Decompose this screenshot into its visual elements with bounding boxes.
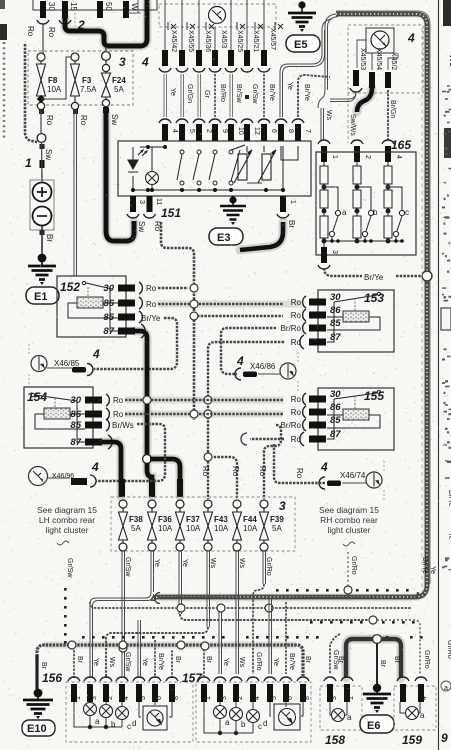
svg-text:Ro: Ro bbox=[295, 468, 304, 479]
svg-text:a: a bbox=[95, 717, 100, 726]
157 pins 1,3,2,4,5,6,8 bbox=[198, 677, 311, 702]
svg-text:159: 159 bbox=[402, 733, 422, 747]
151 bottom pin 1 bbox=[277, 196, 296, 228]
svg-text:X46/85: X46/85 bbox=[54, 359, 80, 368]
svg-text:165: 165 bbox=[391, 138, 411, 152]
svg-text:Ro: Ro bbox=[291, 298, 302, 307]
box fragment at top bbox=[128, 0, 141, 13]
151 internals: rheostats bbox=[234, 150, 276, 183]
svg-text:E6: E6 bbox=[367, 720, 380, 732]
svg-text:Br: Br bbox=[337, 656, 344, 664]
connector X45/42 pin 4 bbox=[159, 0, 178, 141]
svg-text:85: 85 bbox=[103, 312, 114, 323]
svg-text:4: 4 bbox=[91, 460, 99, 474]
svg-text:10A: 10A bbox=[158, 524, 173, 533]
svg-text:Gr/Gn: Gr/Gn bbox=[186, 84, 193, 103]
svg-text:154: 154 bbox=[27, 390, 47, 404]
svg-text:Ro: Ro bbox=[258, 466, 267, 477]
svg-text:4: 4 bbox=[395, 155, 402, 159]
svg-text:1: 1 bbox=[348, 696, 355, 700]
battery 1 bbox=[25, 156, 54, 230]
svg-text:c: c bbox=[127, 722, 131, 731]
svg-text:4: 4 bbox=[236, 354, 244, 368]
scan blur halos bbox=[65, 0, 401, 678]
svg-text:Ro: Ro bbox=[291, 435, 302, 444]
svg-text:X45/42: X45/42 bbox=[170, 30, 177, 52]
earth spur E10 bbox=[35, 655, 38, 689]
main feed wire around right side bbox=[153, 14, 427, 601]
svg-text:F36: F36 bbox=[158, 515, 172, 524]
svg-text:Gr: Gr bbox=[203, 90, 210, 98]
Br bus over 158/159 with E6 bbox=[346, 639, 401, 678]
svg-text:X45/3: X45/3 bbox=[220, 30, 227, 48]
svg-text:5A: 5A bbox=[114, 85, 124, 94]
svg-text:Br: Br bbox=[304, 656, 311, 664]
151 internals: bus and dots bbox=[131, 145, 298, 192]
svg-text:Ye: Ye bbox=[272, 658, 279, 666]
svg-text:Ro: Ro bbox=[47, 27, 56, 38]
connector X45/2 bbox=[382, 52, 397, 162]
fuse box 3 bbox=[28, 51, 149, 105]
svg-text:5A: 5A bbox=[272, 524, 282, 533]
dotted continuation rows bbox=[64, 588, 67, 644]
svg-text:Br/Ye: Br/Ye bbox=[141, 314, 161, 323]
svg-text:Sw: Sw bbox=[110, 114, 119, 125]
main earth bus to 157 pin 1 bbox=[37, 641, 303, 676]
151 internals: LED bbox=[128, 150, 147, 172]
159 pin 4 drop Gr/Ro bbox=[377, 620, 430, 674]
wire row 153/86 from node column bbox=[190, 312, 283, 320]
svg-text:10A: 10A bbox=[243, 524, 258, 533]
wire row 154/30 to 155/30 bbox=[125, 399, 283, 401]
wire Br/Ye from 165 to feed node bbox=[324, 268, 421, 282]
svg-text:4: 4 bbox=[421, 696, 428, 700]
svg-text:3: 3 bbox=[279, 499, 286, 513]
svg-text:10A: 10A bbox=[47, 85, 62, 94]
svg-text:152: 152 bbox=[60, 280, 80, 294]
svg-text:1: 1 bbox=[289, 200, 296, 204]
svg-text:E5: E5 bbox=[294, 39, 307, 51]
wires and components get added below bbox=[0, 0, 157, 304]
svg-text:4: 4 bbox=[254, 696, 261, 700]
svg-text:158: 158 bbox=[325, 733, 345, 747]
svg-text:Gr/Ro: Gr/Ro bbox=[265, 557, 272, 576]
svg-text:LH combo rear: LH combo rear bbox=[39, 515, 95, 525]
svg-text:Br: Br bbox=[379, 660, 386, 668]
165 column 1 bbox=[320, 162, 341, 248]
svg-text:F3: F3 bbox=[82, 76, 92, 85]
connector X45/21 pin 12 bbox=[241, 0, 260, 141]
svg-text:12: 12 bbox=[253, 127, 260, 135]
svg-text:8: 8 bbox=[287, 129, 294, 133]
svg-text:F39: F39 bbox=[270, 515, 284, 524]
158 pin 3 drop Gr/Sw bbox=[330, 634, 340, 674]
connector X45/55 pin 5 bbox=[176, 0, 195, 141]
svg-text:b: b bbox=[373, 208, 378, 217]
svg-text:X45/21: X45/21 bbox=[252, 30, 259, 52]
connector X45/57 pin 6 bbox=[258, 0, 277, 141]
svg-text:Ws: Ws bbox=[108, 657, 115, 668]
instrument cluster dashed box with lamp bbox=[159, 4, 276, 27]
svg-text:Ye: Ye bbox=[286, 82, 293, 90]
svg-text:X45/54: X45/54 bbox=[375, 48, 382, 70]
lamp symbol in unit 4 bbox=[357, 28, 398, 70]
svg-text:86: 86 bbox=[330, 305, 341, 316]
svg-text:Ro: Ro bbox=[113, 410, 124, 419]
svg-text:Br: Br bbox=[205, 656, 212, 664]
pin W of 2 bbox=[123, 1, 139, 18]
connector X45/3 pin 9 bbox=[209, 27, 228, 141]
svg-text:Ro: Ro bbox=[146, 300, 157, 309]
svg-text:11: 11 bbox=[155, 198, 162, 205]
node connector on battery feed bbox=[37, 134, 53, 181]
relay 153 bbox=[281, 290, 394, 352]
wire 153/87 Ro down to fuse F43 bbox=[201, 342, 284, 499]
svg-text:Ro: Ro bbox=[201, 466, 210, 477]
156 lamps a b c d bbox=[84, 703, 168, 731]
bulb marks in cluster box bbox=[168, 22, 283, 30]
svg-text:Br/Ye: Br/Ye bbox=[364, 273, 384, 282]
svg-text:Gr/Ro: Gr/Ro bbox=[350, 556, 357, 575]
license plate light 158 bbox=[320, 677, 362, 747]
wire row 152/86 to 153/30 bbox=[158, 300, 283, 308]
wire Ws from feed to 165 pin 1 bbox=[318, 14, 338, 162]
svg-text:85: 85 bbox=[330, 318, 341, 329]
fuse F3 7.5A bbox=[71, 53, 98, 110]
165 bottom bus bbox=[324, 239, 404, 243]
svg-text:8: 8 bbox=[173, 696, 180, 700]
157 lamps a b c d bbox=[214, 704, 301, 730]
svg-text:Br/Ws: Br/Ws bbox=[112, 421, 134, 430]
svg-text:F38: F38 bbox=[129, 515, 143, 524]
wire labels under fuses bbox=[124, 557, 272, 577]
wire row 154/86 to 155/86 bbox=[125, 413, 283, 415]
svg-text:Br: Br bbox=[76, 656, 83, 664]
svg-text:Br: Br bbox=[393, 656, 400, 664]
svg-text:Ws: Ws bbox=[325, 110, 332, 121]
svg-text:Ye: Ye bbox=[429, 566, 436, 574]
svg-text:5: 5 bbox=[188, 129, 195, 133]
svg-text:10: 10 bbox=[237, 127, 244, 135]
svg-text:50: 50 bbox=[104, 2, 113, 11]
fuse F39 5A bbox=[260, 500, 285, 551]
svg-text:4: 4 bbox=[407, 31, 415, 45]
wire Sw below F24 thick bbox=[103, 107, 134, 241]
svg-text:30: 30 bbox=[103, 283, 114, 294]
LH rear light cluster 156 bbox=[42, 671, 193, 742]
157 internal wiring bbox=[204, 702, 303, 735]
reference wire Gr/Ro RH cluster bbox=[348, 552, 436, 586]
svg-text:Ro: Ro bbox=[291, 338, 302, 347]
svg-text:30: 30 bbox=[70, 395, 81, 406]
svg-text:See diagram 15: See diagram 15 bbox=[319, 505, 379, 515]
svg-text:1: 1 bbox=[205, 696, 212, 700]
svg-text:15: 15 bbox=[69, 2, 78, 11]
svg-text:156: 156 bbox=[42, 671, 62, 685]
svg-text:1: 1 bbox=[25, 156, 32, 170]
svg-text:Ye: Ye bbox=[141, 658, 148, 666]
svg-text:d: d bbox=[263, 719, 267, 728]
svg-text:Br/Sw: Br/Sw bbox=[235, 84, 242, 104]
svg-text:2: 2 bbox=[237, 696, 244, 700]
svg-text:Ro: Ro bbox=[26, 26, 35, 37]
pin 30 of 2 bbox=[37, 1, 56, 24]
svg-text:X45/53: X45/53 bbox=[359, 48, 366, 70]
svg-text:F37: F37 bbox=[186, 515, 200, 524]
156 pin drops bbox=[73, 650, 75, 678]
connector X45/36 pin 2 bbox=[193, 0, 212, 141]
svg-text:E10: E10 bbox=[27, 723, 47, 735]
svg-text:Ws: Ws bbox=[209, 558, 216, 569]
svg-text:85: 85 bbox=[70, 420, 81, 431]
wire Ro from pin 30 bbox=[43, 24, 56, 53]
svg-text:9: 9 bbox=[441, 731, 448, 745]
svg-text:155: 155 bbox=[364, 389, 384, 403]
relay 155 bbox=[281, 388, 394, 450]
wire 154/85 Br/Ws down to X46/96 bbox=[96, 424, 165, 481]
svg-text:4: 4 bbox=[171, 129, 178, 133]
svg-text:a: a bbox=[444, 685, 448, 692]
svg-text:b: b bbox=[241, 720, 246, 729]
svg-text:Sw: Sw bbox=[137, 221, 146, 232]
edge artifacts bbox=[441, 0, 451, 745]
svg-text:30: 30 bbox=[330, 389, 341, 400]
relay 152 bbox=[57, 276, 161, 338]
svg-text:Ro: Ro bbox=[45, 115, 54, 126]
svg-text:Br/Ye: Br/Ye bbox=[157, 653, 164, 670]
svg-text:3: 3 bbox=[221, 696, 228, 700]
fuse F8 10A bbox=[37, 53, 72, 110]
wire Br/Ye to 151 pin 7 bbox=[292, 75, 330, 141]
svg-text:10A: 10A bbox=[214, 524, 229, 533]
wire Ye F36: branch left to 156 pin 3 and right main run bbox=[90, 551, 418, 678]
wire Ro below F3 bbox=[73, 109, 88, 276]
connector X45/25 pin 10 bbox=[225, 0, 244, 141]
wire row 152/30 bbox=[158, 284, 198, 292]
see diagram 15 LH text bbox=[37, 505, 97, 545]
wire Ye to 151 pin 8 bbox=[275, 19, 332, 141]
svg-text:86: 86 bbox=[103, 298, 114, 309]
fuse F36 10A bbox=[148, 500, 173, 551]
svg-text:c: c bbox=[405, 208, 409, 217]
ground E3 bbox=[209, 196, 246, 245]
svg-text:2: 2 bbox=[364, 155, 371, 159]
svg-text:Gr/Ro: Gr/Ro bbox=[255, 652, 262, 671]
lamp connector X46/96 bbox=[29, 460, 100, 487]
svg-text:RH combo rear: RH combo rear bbox=[320, 515, 378, 525]
RH rear light cluster 157 bbox=[182, 671, 311, 742]
svg-text:87: 87 bbox=[103, 326, 114, 337]
page border line bbox=[438, 0, 440, 750]
157 pin drops bbox=[269, 598, 272, 674]
svg-text:Ro: Ro bbox=[291, 408, 302, 417]
node arcs on rows bbox=[143, 396, 198, 418]
wire 153/85 Br/Ro to X46/86 bbox=[221, 328, 276, 374]
svg-text:6: 6 bbox=[287, 696, 294, 700]
svg-text:Ye: Ye bbox=[92, 658, 99, 666]
svg-text:5: 5 bbox=[271, 696, 278, 700]
wire Br to E1 bbox=[40, 226, 55, 256]
fuse F44 10A bbox=[233, 500, 258, 551]
svg-text:Ro: Ro bbox=[291, 395, 302, 404]
svg-text:F24: F24 bbox=[112, 76, 126, 85]
svg-text:a: a bbox=[225, 718, 230, 727]
svg-text:3: 3 bbox=[119, 55, 126, 69]
svg-text:b: b bbox=[111, 720, 116, 729]
165 column 2 bbox=[353, 162, 374, 243]
svg-text:E3: E3 bbox=[217, 232, 230, 244]
svg-text:1: 1 bbox=[75, 696, 82, 700]
svg-text:2: 2 bbox=[205, 129, 212, 133]
svg-text:Ro: Ro bbox=[79, 115, 88, 126]
svg-text:6: 6 bbox=[401, 696, 408, 700]
y607 run bbox=[90, 602, 412, 674]
connector node on feed wire bbox=[422, 271, 432, 281]
svg-text:2: 2 bbox=[107, 696, 114, 700]
wire Gr/Sw F38 down to 156 pin 4 bbox=[119, 551, 127, 678]
svg-text:X45/55: X45/55 bbox=[187, 30, 194, 52]
pin 15 of 2 bbox=[59, 1, 78, 24]
see diagram 15 RH text bbox=[319, 505, 379, 546]
lamp connector X46/85 bbox=[29, 344, 100, 384]
svg-text:5A: 5A bbox=[131, 524, 141, 533]
lamp connector X46/86 bbox=[235, 352, 298, 391]
svg-text:Br/Gn: Br/Gn bbox=[389, 100, 396, 118]
svg-text:light cluster: light cluster bbox=[46, 525, 89, 535]
fog lamp unit 165 bbox=[316, 138, 416, 255]
svg-text:Br: Br bbox=[45, 234, 54, 242]
svg-text:3: 3 bbox=[331, 696, 338, 700]
ground E10 bbox=[22, 689, 55, 736]
dotted row y622 right bbox=[310, 621, 415, 624]
svg-text:4: 4 bbox=[141, 55, 149, 69]
bottom wire labels row bbox=[76, 650, 400, 672]
svg-text:7: 7 bbox=[304, 129, 311, 133]
ground E6 bbox=[360, 684, 394, 733]
wire Ye F37 to y620 run bbox=[179, 551, 377, 624]
svg-text:Br/Ye: Br/Ye bbox=[288, 653, 295, 670]
relay 154 bbox=[24, 387, 134, 449]
svg-text:Gr/Sw: Gr/Sw bbox=[251, 84, 258, 104]
dotted row y637 left bbox=[82, 636, 225, 639]
svg-text:Br/Ro: Br/Ro bbox=[281, 324, 302, 333]
svg-text:Ye: Ye bbox=[447, 532, 451, 540]
svg-text:X45/36: X45/36 bbox=[204, 30, 211, 52]
fog lamp 159 bbox=[394, 677, 436, 747]
E6 spur bbox=[376, 643, 378, 686]
fuse F37 10A bbox=[176, 500, 201, 551]
svg-text:Sw/Ws: Sw/Ws bbox=[349, 114, 356, 136]
wire Ws F43 to y633 run left bbox=[106, 551, 210, 678]
156 pins 1,3,2,4,5,6,8 bbox=[68, 677, 180, 702]
svg-text:light cluster: light cluster bbox=[328, 525, 371, 535]
dashed box of headlamp unit 4 bbox=[348, 25, 423, 143]
svg-text:Br/Ro: Br/Ro bbox=[219, 84, 226, 102]
svg-text:30: 30 bbox=[330, 292, 341, 303]
wire Br from pin 1 to E3 bbox=[240, 222, 283, 250]
wire Sw thick from pin 15 bbox=[65, 0, 147, 46]
svg-text:X45/2: X45/2 bbox=[390, 52, 397, 70]
pin 50 of 2 bbox=[97, 1, 113, 18]
151 bottom pin 11 bbox=[144, 196, 163, 232]
svg-text:Gr/Sw: Gr/Sw bbox=[66, 558, 73, 578]
wire 155/87 Ro to fuse F44 bbox=[231, 433, 304, 479]
svg-text:E1: E1 bbox=[34, 291, 47, 303]
wire Gr/Ro F39 jog to 157 pin 4 bbox=[253, 551, 266, 674]
fuse F24 5A bbox=[102, 60, 127, 107]
svg-text:Br: Br bbox=[174, 656, 181, 664]
svg-text:Gr/Sw: Gr/Sw bbox=[124, 557, 131, 577]
svg-text:X45/57: X45/57 bbox=[269, 28, 276, 50]
svg-text:X46/96: X46/96 bbox=[52, 473, 74, 480]
inner dashed border bbox=[421, 28, 423, 592]
svg-text:3: 3 bbox=[91, 696, 98, 700]
svg-text:Gr/Sw: Gr/Sw bbox=[124, 652, 131, 672]
svg-text:Br/Ro: Br/Ro bbox=[281, 421, 302, 430]
svg-text:X46/74: X46/74 bbox=[340, 471, 366, 480]
svg-text:Sw: Sw bbox=[44, 149, 53, 160]
wire Ws F44 straight down to 157 pin 2 bbox=[236, 551, 239, 674]
165 bottom pin 3 bbox=[318, 247, 338, 269]
svg-text:5: 5 bbox=[140, 696, 147, 700]
svg-text:1: 1 bbox=[331, 155, 338, 159]
connector X45/54 bbox=[349, 48, 382, 162]
156 internal wiring bbox=[74, 702, 172, 729]
svg-text:8: 8 bbox=[304, 696, 311, 700]
connector X45/53 bbox=[330, 48, 366, 102]
wire 155/85 Br/Ro down to fuse F39 bbox=[264, 425, 281, 499]
wire 152/85 Br/Ye down to X46/85 bbox=[94, 318, 177, 369]
svg-text:6: 6 bbox=[270, 129, 277, 133]
svg-text:9: 9 bbox=[221, 129, 228, 133]
svg-text:4: 4 bbox=[320, 460, 328, 474]
svg-text:Ro: Ro bbox=[231, 466, 240, 477]
ground E1 bbox=[26, 254, 59, 304]
svg-text:Ro: Ro bbox=[113, 396, 124, 405]
svg-text:4: 4 bbox=[92, 347, 100, 361]
151 bottom pin 3 bbox=[127, 196, 146, 232]
svg-text:a: a bbox=[420, 711, 425, 720]
fuse box 3 lower bbox=[111, 497, 295, 551]
svg-text:153: 153 bbox=[364, 291, 384, 305]
ignition switch 2 bbox=[33, 0, 157, 32]
svg-text:a: a bbox=[347, 713, 352, 722]
svg-text:7.5A: 7.5A bbox=[80, 85, 97, 94]
svg-text:Br/Ye: Br/Ye bbox=[268, 84, 275, 101]
svg-text:Ro: Ro bbox=[291, 311, 302, 320]
wire Ro from pin 11 down to node column bbox=[161, 222, 194, 420]
svg-text:Gr/Ro: Gr/Ro bbox=[446, 640, 451, 659]
151 internals: lamp bbox=[146, 172, 159, 185]
node above F24 bbox=[102, 46, 111, 60]
svg-text:Ws: Ws bbox=[238, 657, 245, 668]
svg-text:Ro: Ro bbox=[146, 284, 157, 293]
svg-text:d: d bbox=[132, 719, 136, 728]
svg-text:c: c bbox=[258, 722, 262, 731]
svg-text:X45/25: X45/25 bbox=[236, 30, 243, 52]
svg-text:Br: Br bbox=[40, 662, 47, 670]
light switch 151 bbox=[118, 141, 311, 220]
svg-text:4: 4 bbox=[123, 696, 130, 700]
ground E5 bbox=[286, 1, 320, 52]
wire to fuse F37 bbox=[150, 459, 180, 497]
svg-text:Gr/Ro: Gr/Ro bbox=[423, 650, 430, 669]
151 internals: switches bbox=[133, 145, 245, 190]
svg-text:10A: 10A bbox=[186, 524, 201, 533]
dotted row y590 right bbox=[276, 589, 409, 592]
svg-text:Ye: Ye bbox=[153, 559, 160, 567]
svg-text:See diagram 15: See diagram 15 bbox=[37, 505, 97, 515]
